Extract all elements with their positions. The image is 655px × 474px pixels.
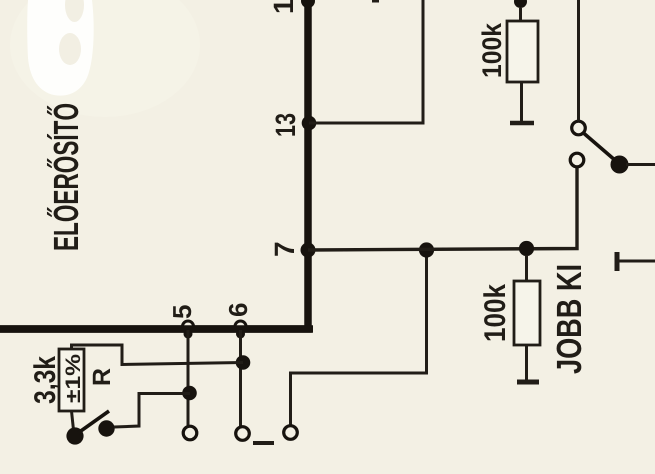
svg-text:100k: 100k [479,284,512,342]
blob inner hole [59,33,81,65]
end bar terminal upper [510,121,534,126]
wire from switch common to right edge [626,163,655,166]
svg-text:±1%: ±1% [62,354,85,403]
svg-text:7: 7 [269,241,300,257]
dash mark [253,441,274,445]
top edge mark [372,0,379,3]
switch S lever [78,411,109,433]
svg-text:13: 13 [270,113,301,137]
resistor 100k upper: junction dot at top [514,0,527,8]
svg-text:100k: 100k [477,22,507,78]
resistor 100k lower: top lead [525,255,528,281]
wire third terminal riser [291,250,427,426]
wire from contact B to pin5 junction [114,394,190,428]
open terminal below pin5 [183,426,197,440]
resistor 100k upper: top lead [519,8,522,21]
junction dot on pin6 wire [236,355,251,370]
wire R top to pin6 junction [72,345,244,365]
pin 5 bulge [184,330,193,339]
bus overlay on pin rings [0,325,313,333]
switch S contact B (filled) [98,420,114,436]
white scan blob top-left [27,0,93,96]
resistor 100k lower: bottom lead [525,345,528,380]
open terminal below pin6 [236,427,250,441]
switch lower contact [570,153,584,167]
resistor 100k upper body [507,21,538,82]
svg-text:3,3k: 3,3k [29,356,62,404]
junction dot at lower 100k tap [519,241,534,256]
capacitor plate at right edge [615,252,620,271]
switch common dot [611,156,629,174]
junction dot mid wire [419,242,434,257]
svg-text:JOBB KI: JOBB KI [550,264,589,374]
wire R bottom lead [72,411,74,430]
pin 18 junction dot (cut at top) [301,0,315,8]
blob cream notch at top [65,0,84,22]
resistor R 3,3k body [59,349,84,411]
wire pin5 down [187,330,190,427]
svg-text:18: 18 [268,0,299,14]
pin 7 junction dot [301,243,316,258]
end bar terminal [517,380,539,385]
svg-text:R: R [88,368,116,386]
switch lever [584,133,617,161]
wire pin6 down [239,330,242,427]
switch S contact A (filled) [66,427,83,444]
pin 5 terminal ring [183,321,194,332]
pin 6 terminal ring [235,321,246,332]
switch upper contact [572,121,586,135]
wire pin13 loop to top [309,0,423,123]
svg-text:5: 5 [167,305,197,319]
svg-text:ELŐERŐSÍTŐ: ELŐERŐSÍTŐ [46,103,86,251]
junction dot on pin5 wire [182,386,197,401]
resistor 100k upper: bottom lead [520,82,523,121]
svg-text:6: 6 [223,303,253,317]
pin 6 bulge [236,330,245,339]
wire from plate to right edge [619,260,655,263]
pin 13 junction dot [302,116,317,131]
wire pin7 to switch [308,167,577,250]
open terminal third [284,426,298,440]
wire to switch upper contact from top [577,0,580,121]
white scan blob halo [10,0,200,117]
preamp block edge (thick bus of ELŐERŐSÍTŐ) [0,0,308,329]
resistor 100k lower body [514,281,540,345]
